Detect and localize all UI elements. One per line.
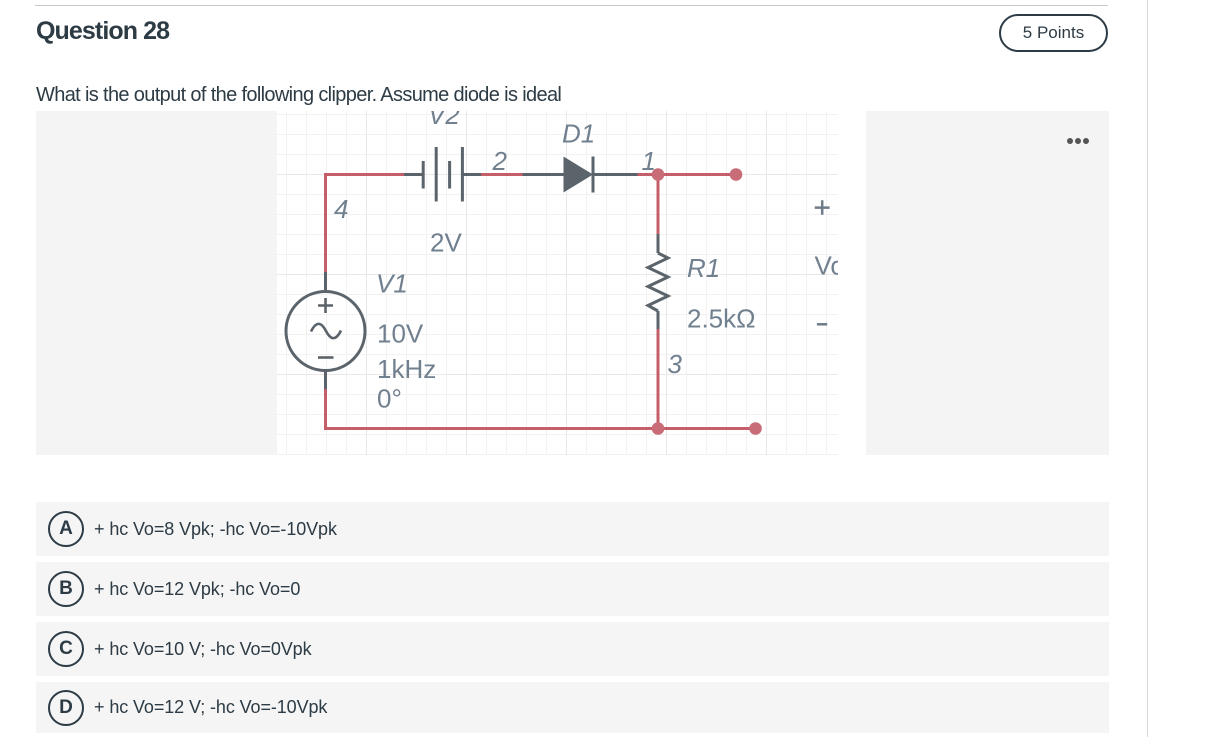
svg-text:1kHz: 1kHz: [377, 354, 436, 384]
terminal dot top right: [730, 168, 743, 181]
svg-text:1: 1: [642, 146, 656, 176]
wire bottom rail: [326, 389, 756, 429]
wire diode cathode through node 1 to open dot: [638, 173, 737, 176]
battery V2 plate long 1: [435, 147, 438, 202]
question text: [36, 84, 561, 107]
resistor R1 zigzag: [648, 253, 668, 311]
diode D1 lead anode: [523, 173, 565, 176]
svg-text:3: 3: [668, 349, 683, 379]
junction dot node 1: [652, 168, 665, 181]
wire node 1 down to R1 top: [657, 175, 660, 235]
diode D1 cathode bar: [592, 157, 595, 193]
V1 plus mark: [318, 298, 333, 313]
left gray panel: [36, 111, 277, 455]
V1 minus mark: [318, 356, 334, 359]
wire top-left: V2 left plate to source top: [326, 175, 405, 273]
resistor R1 lead top: [657, 234, 660, 253]
terminal dot bottom right: [749, 422, 762, 435]
top hairline: [35, 5, 1108, 6]
diode D1 lead cathode: [593, 173, 638, 176]
right gray panel: [866, 111, 1109, 455]
svg-text:V1: V1: [376, 269, 408, 299]
svg-text:2.5kΩ: 2.5kΩ: [687, 304, 756, 334]
svg-text:4: 4: [334, 194, 348, 224]
schematic canvas: [277, 111, 838, 455]
battery V2 lead left: [404, 173, 423, 176]
source V1 lead bottom: [324, 371, 327, 390]
svg-text:R1: R1: [687, 253, 720, 283]
points pill: [999, 14, 1108, 52]
resistor R1 lead bottom: [657, 311, 660, 329]
svg-text:V2: V2: [428, 111, 460, 130]
right page divider: [1147, 0, 1148, 737]
battery V2 lead right: [462, 173, 481, 176]
battery V2 plate short 1: [422, 161, 425, 189]
svg-text:D1: D1: [562, 119, 595, 149]
option row D: [36, 682, 1109, 733]
svg-text:0°: 0°: [377, 384, 402, 414]
output minus mark: [817, 323, 827, 326]
junction dot node 3: [652, 422, 665, 435]
battery V2 plate short 2: [448, 161, 451, 189]
source V1 lead top: [324, 272, 327, 292]
option row A: [36, 502, 1109, 556]
svg-text:2V: 2V: [430, 228, 462, 258]
diode D1 triangle: [564, 157, 594, 193]
option row B: [36, 562, 1109, 616]
AC source V1 body: [286, 292, 365, 371]
V1 sine mark: [311, 324, 341, 338]
option row C: [36, 622, 1109, 676]
question title: [36, 17, 169, 46]
battery V2 plate long 2: [461, 147, 464, 202]
output plus mark: [815, 200, 830, 215]
wire battery to diode (node 2 segment): [481, 173, 523, 176]
grid major lines: [277, 111, 838, 455]
kebab menu dots: [1067, 138, 1089, 144]
wire R1 bottom to node 3: [657, 329, 660, 429]
svg-text:Vo: Vo: [815, 251, 839, 281]
svg-text:10V: 10V: [377, 319, 424, 349]
svg-text:2: 2: [492, 146, 508, 176]
